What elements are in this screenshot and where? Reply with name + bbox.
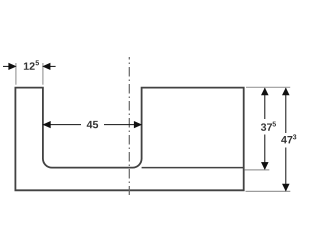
dimension text 12.5 (24, 62, 35, 69)
dimension 37.5 line upper segment (264, 88, 266, 119)
dimension 47.3 line upper segment (285, 88, 287, 133)
dimension 45 left arrow (43, 121, 50, 127)
centerline (128, 57, 130, 195)
dimension 37.5 upper arrow (262, 88, 269, 95)
countertop outline with basin cutout (15, 88, 243, 191)
extension line left B (42, 63, 44, 85)
dimension text 37.5 (261, 123, 272, 131)
dimension 47.3 line lower segment (285, 148, 287, 191)
dimension text 45 (87, 121, 98, 128)
extension line mid right (245, 169, 270, 171)
dimension 45 right segment (104, 124, 142, 126)
dimension 37.5 lower arrow (262, 162, 269, 169)
dimension 12.5 right arrow (43, 63, 50, 69)
shelf edge line (142, 167, 244, 169)
dimension 12.5 line left tail (3, 65, 10, 67)
extension line bottom right (246, 190, 291, 192)
dimension 45 line left segment (43, 124, 81, 126)
dimension 47.3 upper arrow (283, 88, 290, 95)
extension line left A (15, 63, 17, 85)
dimension 12.5 line right tail (50, 65, 56, 67)
dimension 47.3 lower arrow (283, 184, 290, 191)
dimension 37.5 line lower segment (264, 135, 266, 170)
dimension text 47.3 (281, 136, 292, 143)
dimension 45 right arrow (134, 121, 141, 127)
extension line top right (246, 86, 290, 88)
dimension 12.5 left arrow (9, 63, 16, 69)
